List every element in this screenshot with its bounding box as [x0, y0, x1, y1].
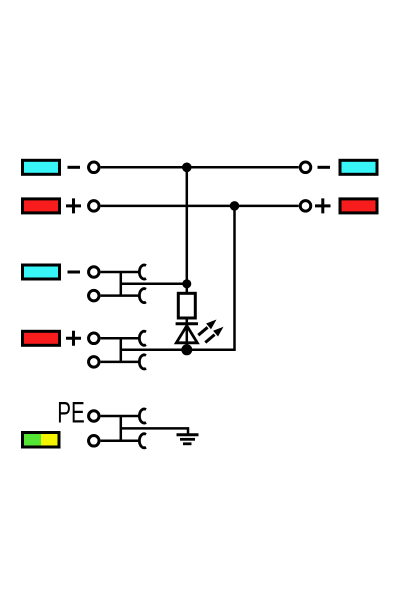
fork B contact arc top [139, 331, 146, 345]
wire resistor to LED [186, 319, 189, 350]
fork A bar [120, 272, 123, 296]
ground symbol bar 2 [180, 438, 195, 441]
fork PE contact arc top [139, 409, 146, 423]
fork PE bottom prong [101, 440, 140, 443]
plus sign row 2 left [66, 198, 81, 213]
terminal circle A top [89, 267, 100, 278]
fork B top prong [101, 337, 140, 340]
resistor R1 [178, 293, 195, 318]
wire PE to ground [121, 428, 188, 434]
LED light arrow 1 [198, 320, 216, 336]
fork B bar [120, 338, 123, 362]
fork B bottom prong [101, 361, 140, 364]
fork A top prong [101, 271, 140, 274]
node junction row2/vertical2 [230, 201, 240, 211]
LED D1 triangle [176, 326, 197, 343]
LED D1 cathode bar [176, 322, 198, 325]
minus sign row 1 left [68, 166, 81, 169]
minus sign row 1 right [318, 166, 331, 169]
node junction LED bottom [181, 344, 192, 355]
wire fork A to LED branch [121, 283, 187, 286]
wire row 1 [101, 166, 299, 169]
wire fork B to LED bottom and up to row 2 [121, 206, 235, 350]
terminal circle B top [89, 333, 100, 344]
terminal marker cyan R1 (row 1 right) [340, 160, 377, 174]
terminal circle row 1 right [300, 162, 311, 173]
minus sign group A [68, 271, 81, 274]
fork B contact arc bottom [139, 355, 146, 369]
LED light arrow 2 [205, 327, 223, 343]
fork PE bar [120, 416, 123, 441]
plus sign row 2 right [315, 198, 331, 213]
plus sign group B [66, 331, 81, 346]
terminal marker red R2 (row 2 right) [340, 199, 377, 213]
wire vertical drop from row1 to resistor [186, 167, 189, 292]
terminal circle row 1 left [89, 162, 100, 173]
terminal marker green-yellow PE [23, 433, 60, 448]
terminal circle PE bottom [89, 436, 100, 447]
wire row 2 [101, 205, 299, 208]
terminal marker red L4 (group B) [23, 331, 60, 345]
terminal circle PE top [89, 411, 100, 422]
terminal circle row 2 right [300, 201, 311, 212]
ground symbol bar 3 [183, 442, 192, 445]
terminal circle B bottom [89, 357, 100, 368]
fork A bottom prong [101, 294, 140, 297]
terminal marker cyan L1 (row 1 left) [23, 160, 60, 174]
node junction row1/vertical1 [182, 163, 192, 173]
terminal marker cyan L3 (group A) [23, 265, 60, 279]
terminal circle A bottom [89, 290, 100, 301]
terminal circle row 2 left [89, 201, 100, 212]
terminal marker red L2 (row 2 left) [23, 199, 60, 213]
fork A contact arc bottom [139, 289, 146, 303]
node junction A [182, 279, 191, 288]
svg-text:PE: PE [57, 397, 85, 430]
fork PE contact arc bottom [139, 434, 146, 448]
fork A contact arc top [139, 265, 146, 279]
ground symbol bar 1 [177, 433, 199, 436]
fork PE top prong [101, 415, 140, 418]
